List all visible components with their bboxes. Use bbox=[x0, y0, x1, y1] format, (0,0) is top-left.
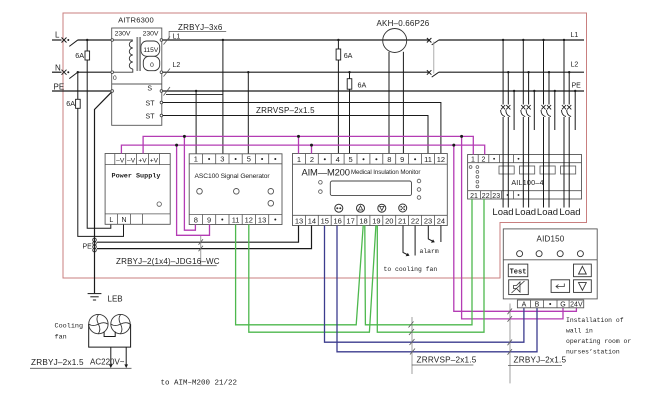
svg-text:1: 1 bbox=[194, 155, 198, 164]
wire AIM 19 to AIL 22 (green) bbox=[377, 199, 484, 332]
wire N to transformer bbox=[78, 71, 112, 73]
svg-text:22: 22 bbox=[411, 216, 419, 225]
wire bus to AID150 24V bbox=[454, 145, 577, 311]
svg-text:6A: 6A bbox=[358, 81, 367, 90]
svg-text:AC220V~: AC220V~ bbox=[90, 358, 125, 367]
fuse F1 6A bbox=[85, 51, 90, 60]
fuse F4 6A (L2 to AIM 5) bbox=[349, 72, 351, 153]
core bbox=[136, 37, 138, 71]
svg-text:N: N bbox=[55, 64, 61, 73]
wire S to ASC100 pin 1 bbox=[195, 91, 197, 154]
svg-text:11: 11 bbox=[232, 216, 240, 225]
svg-text:20: 20 bbox=[385, 216, 393, 225]
wire AIM 23/24 alarm bbox=[428, 226, 441, 243]
wire CT secondary k to AIM 8 bbox=[388, 52, 390, 154]
svg-text:L: L bbox=[55, 31, 60, 40]
svg-text:22: 22 bbox=[482, 193, 490, 200]
junction N/branch bbox=[77, 71, 79, 73]
svg-text:3: 3 bbox=[220, 155, 224, 164]
button down bbox=[574, 280, 592, 293]
secondary winding 115V bbox=[141, 41, 160, 56]
svg-text:17: 17 bbox=[346, 216, 354, 225]
cable hatch PE pair bbox=[199, 239, 204, 244]
wire ASC 12 to AIM 19 (green) bbox=[249, 225, 376, 333]
AIL left terminals bbox=[469, 166, 479, 188]
svg-text:L2: L2 bbox=[571, 62, 579, 69]
svg-text:Load: Load bbox=[515, 207, 536, 218]
wire ST2 to AIM terminal 11 bbox=[163, 116, 428, 154]
svg-text:18: 18 bbox=[359, 216, 367, 225]
magenta junctions bbox=[175, 135, 463, 147]
cable hatches ZRRVSP bottom bbox=[409, 322, 416, 355]
svg-text:AKH–0.66P26: AKH–0.66P26 bbox=[377, 19, 430, 28]
svg-text:Load: Load bbox=[537, 207, 558, 218]
fuse F3 6A (L1 to AIM 4) bbox=[337, 40, 339, 154]
svg-text:230V: 230V bbox=[115, 31, 131, 38]
svg-text:ZRBYJ–2x1.5: ZRBYJ–2x1.5 bbox=[514, 356, 567, 365]
breaker QF4 bbox=[562, 105, 572, 117]
svg-text:Test: Test bbox=[510, 269, 527, 277]
svg-text:23: 23 bbox=[492, 193, 500, 200]
svg-text:wall in: wall in bbox=[566, 327, 593, 334]
svg-text:5: 5 bbox=[349, 155, 353, 164]
svg-text:23: 23 bbox=[424, 216, 432, 225]
button enter bbox=[551, 280, 570, 293]
svg-text:alarm: alarm bbox=[420, 248, 439, 255]
svg-text:ZRBYJ–2(1x4)–JDG16–WC: ZRBYJ–2(1x4)–JDG16–WC bbox=[116, 257, 220, 266]
remote indicator AID150 bbox=[503, 229, 597, 299]
svg-text:6A: 6A bbox=[66, 99, 75, 108]
svg-text:nurses’station: nurses’station bbox=[566, 348, 620, 355]
svg-text:9: 9 bbox=[207, 216, 211, 225]
svg-text:0: 0 bbox=[113, 75, 117, 82]
svg-text:21: 21 bbox=[398, 216, 406, 225]
svg-text:B: B bbox=[535, 302, 540, 309]
relay contact block 2 bbox=[520, 166, 535, 174]
24V- bus (magenta) from PSU -V to AIL pin 2 bbox=[121, 145, 484, 154]
button Test bbox=[508, 264, 528, 277]
wire L1 to ASC100 pin 3 bbox=[222, 40, 224, 154]
cable label ZRBYJ-2x1.5 right bbox=[509, 304, 511, 384]
load circuit 2 L2 pole bbox=[527, 71, 529, 105]
wire L branch down to fuse F1 and power supply bbox=[87, 40, 111, 228]
svg-text:PE: PE bbox=[54, 83, 65, 92]
switch SA2 pole L2 bbox=[427, 70, 439, 77]
wire AIM 21/22 to cooling fan bbox=[403, 226, 415, 256]
AID terminal strip bbox=[517, 300, 583, 308]
svg-text:S: S bbox=[147, 86, 152, 93]
button up bbox=[574, 264, 592, 277]
svg-text:21: 21 bbox=[470, 193, 478, 200]
svg-text:N: N bbox=[121, 217, 126, 224]
svg-text:L1: L1 bbox=[571, 32, 579, 39]
installation note bbox=[566, 317, 631, 356]
switch SA1 pole N bbox=[62, 70, 78, 79]
svg-text:8: 8 bbox=[194, 216, 198, 225]
svg-text:AIM—M200: AIM—M200 bbox=[302, 167, 350, 178]
svg-text:L: L bbox=[109, 217, 113, 224]
wire AIM 18 to AIL 21 (green) bbox=[365, 199, 472, 325]
svg-text:operating room or: operating room or bbox=[566, 338, 631, 345]
cable label ZRBYJ-2(1x4)-JDG16-WC bbox=[200, 236, 202, 265]
cable hatch S bbox=[164, 87, 171, 96]
wire L to transformer bbox=[78, 39, 112, 41]
cable hatch L1 bbox=[164, 37, 171, 45]
wire PE input bbox=[52, 90, 112, 92]
svg-text:–V: –V bbox=[116, 157, 125, 164]
LCD display bbox=[330, 181, 411, 196]
24V+ bus (magenta) from PSU +V to AIL pin 1 bbox=[143, 136, 473, 154]
wire L input bbox=[52, 39, 62, 41]
wire S stub bbox=[166, 94, 223, 96]
svg-text:8: 8 bbox=[387, 155, 391, 164]
ground LEB bbox=[88, 294, 102, 300]
svg-text:ZRRVSP–2x1.5: ZRRVSP–2x1.5 bbox=[256, 106, 315, 115]
load circuit 4 PE drop bbox=[574, 90, 576, 130]
fan wiring bbox=[89, 324, 131, 365]
AIM pins 1-12 bbox=[297, 155, 445, 164]
svg-text:PE: PE bbox=[572, 83, 582, 90]
wire AIM 16 to AID B (blue RS485) bbox=[337, 226, 537, 352]
load circuit 4 L2 pole bbox=[568, 71, 570, 105]
svg-text:24V: 24V bbox=[570, 302, 583, 309]
svg-text:9: 9 bbox=[400, 155, 404, 164]
load circuit 3 PE drop bbox=[554, 90, 556, 130]
svg-text:+V: +V bbox=[150, 157, 159, 164]
svg-text:12: 12 bbox=[437, 155, 445, 164]
relay contact block 1 bbox=[499, 166, 514, 174]
load circuit 3 L1 pole bbox=[542, 39, 544, 105]
svg-text:–V: –V bbox=[127, 157, 136, 164]
load circuit wires through AIL bbox=[503, 117, 569, 208]
svg-text:to AIM–M200 21/22: to AIM–M200 21/22 bbox=[161, 379, 238, 387]
svg-text:4: 4 bbox=[336, 155, 340, 164]
secondary winding 0 bbox=[143, 56, 159, 70]
load circuit 1 L2 pole bbox=[507, 71, 509, 105]
PE equipotential pair to AIM pin 13 bbox=[97, 226, 299, 243]
cable hatches ZRBYJ to AID bbox=[508, 309, 513, 355]
svg-text:PE: PE bbox=[83, 243, 93, 250]
breaker QF3 bbox=[541, 105, 551, 117]
junction L/fuse bbox=[86, 39, 88, 41]
AIM pins 13-24 bbox=[295, 216, 445, 225]
cable hatch L2 bbox=[164, 69, 171, 77]
svg-text:1: 1 bbox=[297, 155, 301, 164]
button menu bbox=[335, 204, 343, 212]
fuse F2 6A bbox=[76, 99, 81, 108]
svg-text:AITR6300: AITR6300 bbox=[118, 16, 154, 25]
svg-text:6A: 6A bbox=[75, 51, 84, 60]
svg-text:ZRBYJ–3x6: ZRBYJ–3x6 bbox=[178, 23, 223, 32]
svg-text:15: 15 bbox=[321, 216, 329, 225]
relay contact block 4 bbox=[561, 166, 576, 174]
svg-text:Load: Load bbox=[559, 207, 580, 218]
wire bus to ASC pin 8 bbox=[184, 136, 195, 230]
wire bus to AID150 G bbox=[462, 136, 563, 319]
svg-text:115V: 115V bbox=[143, 47, 159, 54]
medical insulation monitor AIM-M200 bbox=[293, 154, 448, 226]
wire bus to AIM pin 1 bbox=[298, 136, 300, 153]
svg-text:Power Supply: Power Supply bbox=[112, 173, 161, 181]
svg-text:Installation of: Installation of bbox=[566, 317, 624, 324]
svg-text:13: 13 bbox=[258, 216, 266, 225]
button down bbox=[378, 204, 386, 212]
svg-text:LEB: LEB bbox=[108, 295, 123, 304]
load circuit 3 L2 pole bbox=[548, 71, 550, 105]
wire L1 bus bbox=[163, 39, 430, 41]
switch SA2 linkage bbox=[433, 42, 435, 74]
svg-text:fan: fan bbox=[55, 333, 67, 341]
svg-text:6A: 6A bbox=[344, 51, 353, 60]
wire N input bbox=[52, 71, 62, 73]
load circuit 4 L1 pole bbox=[563, 39, 565, 105]
AID indicator LEDs bbox=[517, 251, 584, 257]
svg-text:14: 14 bbox=[308, 216, 316, 225]
breaker QF1 bbox=[501, 105, 511, 117]
svg-text:13: 13 bbox=[295, 216, 303, 225]
svg-text:ASC100 Signal Generator: ASC100 Signal Generator bbox=[195, 173, 271, 180]
svg-text:12: 12 bbox=[245, 216, 253, 225]
cable label ZRRVSP-2x1.5 bottom bbox=[411, 317, 413, 374]
load circuit 2 L1 pole bbox=[522, 39, 524, 105]
svg-text:16: 16 bbox=[334, 216, 342, 225]
wire ASC 11 to AIM 18 (green) bbox=[236, 225, 364, 325]
signal generator ASC100 bbox=[189, 154, 282, 225]
wire AIM 15 to AID A (blue RS485) bbox=[325, 226, 524, 343]
relay contact block 3 bbox=[540, 166, 555, 174]
svg-text:A: A bbox=[522, 302, 527, 309]
wire N branch down through fuse F2 to power supply N bbox=[78, 72, 124, 236]
AIM indicator LEDs bbox=[319, 179, 421, 199]
load circuit 1 L1 pole bbox=[502, 39, 504, 105]
wire L2 bus bbox=[163, 71, 430, 73]
enclosure border (distribution panel outline) bbox=[63, 13, 587, 278]
svg-text:L1: L1 bbox=[173, 34, 181, 41]
breaker QF2 bbox=[521, 105, 531, 117]
svg-text:230V: 230V bbox=[143, 31, 159, 38]
svg-text:24: 24 bbox=[437, 216, 445, 225]
wire ST1 to AIM terminal 12 bbox=[163, 103, 441, 154]
load circuit 1 PE drop bbox=[513, 90, 515, 130]
PE equipotential pair to AIM pin 14 bbox=[97, 226, 312, 249]
isolation transformer unit AIL100-4 bbox=[468, 155, 582, 200]
primary winding bbox=[112, 40, 133, 72]
svg-text:+V: +V bbox=[138, 157, 147, 164]
button mute bbox=[509, 280, 529, 295]
switch SA1 pole L bbox=[62, 38, 78, 47]
switch SA2 pole L1 bbox=[427, 38, 439, 45]
svg-text:Load: Load bbox=[492, 207, 513, 218]
svg-text:ST: ST bbox=[146, 113, 156, 120]
wire PE busbar to LEB bbox=[94, 238, 96, 293]
transformer terminals bbox=[111, 39, 163, 117]
wire S/PE bus bbox=[163, 90, 584, 92]
svg-text:G: G bbox=[560, 302, 565, 309]
power supply unit bbox=[105, 154, 170, 225]
svg-text:L2: L2 bbox=[173, 62, 181, 69]
svg-text:ST: ST bbox=[146, 101, 156, 108]
svg-text:Cooling: Cooling bbox=[55, 322, 84, 330]
svg-text:2: 2 bbox=[482, 156, 486, 163]
svg-text:Medical Insulation Monitor: Medical Insulation Monitor bbox=[351, 169, 420, 176]
svg-text:5: 5 bbox=[247, 155, 251, 164]
svg-text:ZRRVSP–2x1.5: ZRRVSP–2x1.5 bbox=[417, 356, 477, 365]
load circuit 2 PE drop bbox=[533, 90, 535, 130]
svg-text:2: 2 bbox=[310, 155, 314, 164]
svg-text:11: 11 bbox=[424, 155, 432, 164]
svg-text:ZRBYJ–2x1.5: ZRBYJ–2x1.5 bbox=[31, 358, 84, 367]
wire PE diagonal to PE busbar bbox=[95, 92, 112, 238]
svg-text:AID150: AID150 bbox=[537, 234, 565, 243]
svg-text:AIL100–4: AIL100–4 bbox=[511, 178, 543, 187]
svg-text:to cooling fan: to cooling fan bbox=[384, 266, 438, 273]
svg-text:0: 0 bbox=[150, 62, 154, 69]
svg-text:1: 1 bbox=[471, 156, 475, 163]
wire bus to AIM pin 2 bbox=[311, 145, 313, 153]
button up bbox=[357, 204, 365, 212]
svg-text:19: 19 bbox=[372, 216, 380, 225]
wire bus to ASC pin 9 bbox=[177, 145, 210, 235]
button enter bbox=[399, 204, 407, 212]
wire CT secondary l to AIM 9 bbox=[402, 52, 404, 154]
wire L2 to ASC100 pin 5 bbox=[247, 72, 249, 154]
